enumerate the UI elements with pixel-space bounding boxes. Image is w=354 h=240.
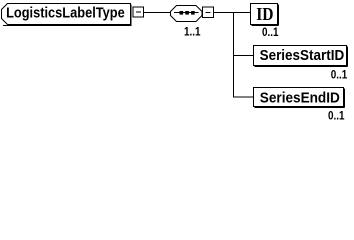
wire: branch to SeriesEndID — [234, 96, 255, 98]
expand button (root) — [133, 7, 144, 17]
svg-text:0..1: 0..1 — [328, 109, 345, 123]
sequence icon line — [174, 12, 199, 14]
sequence compositor (octagon) — [171, 6, 203, 22]
svg-text:SeriesStartID: SeriesStartID — [260, 48, 345, 64]
wire: branch to SeriesStartID — [234, 55, 255, 57]
svg-text:ID: ID — [256, 4, 273, 24]
element SeriesEndID (box) — [254, 88, 345, 108]
svg-text:1..1: 1..1 — [184, 25, 201, 39]
element LogisticsLabelType (root box, chamfered left corners) — [2, 4, 132, 26]
element ID (box) — [251, 4, 279, 26]
wire: root button to sequence — [144, 12, 172, 14]
sequence icon dot 3 — [191, 11, 195, 15]
sequence icon dot 2 — [185, 11, 189, 15]
svg-text:0..1: 0..1 — [331, 68, 348, 82]
svg-text:SeriesEndID: SeriesEndID — [260, 90, 340, 106]
wire: vertical trunk — [233, 13, 235, 98]
sequence icon dot 1 — [180, 11, 184, 15]
shadow right+bottom of root box — [130, 5, 132, 26]
expand button (sequence) — [203, 7, 214, 18]
element SeriesStartID (box) — [254, 46, 348, 67]
svg-text:LogisticsLabelType: LogisticsLabelType — [6, 6, 125, 22]
wire: sequence to ID row — [214, 12, 252, 14]
svg-text:0..1: 0..1 — [262, 25, 279, 39]
